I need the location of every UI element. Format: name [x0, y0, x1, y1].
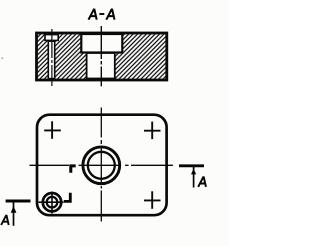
- cross mark top-left: [44, 121, 61, 139]
- section plane bar left: [6, 200, 31, 203]
- faint speck: [2, 58, 4, 59]
- section view hatched block: [37, 33, 167, 80]
- cross mark top-right: [144, 122, 161, 140]
- small counterbore (section): [45, 35, 58, 41]
- plan vertical centerline: [100, 108, 102, 222]
- label A right: [198, 176, 206, 186]
- centerline small hole (section): [51, 29, 53, 86]
- plan view rounded rect: [37, 115, 167, 216]
- small hole (section): [48, 41, 54, 78]
- section path bend mark lower: [64, 193, 71, 202]
- section arrow left: [11, 203, 17, 226]
- big through hole (section): [87, 53, 115, 79]
- big circle hole (plan): [88, 152, 115, 179]
- cross mark bottom-right: [144, 191, 161, 209]
- big circle counterbore (plan): [83, 147, 120, 184]
- centerline big hole (section): [100, 26, 102, 86]
- section plane bar right: [179, 164, 204, 167]
- label A left: [1, 215, 9, 225]
- big counterbore (section): [81, 34, 122, 53]
- section outline: [37, 33, 167, 80]
- plan horizontal centerline: [30, 164, 173, 166]
- title A-A: [89, 9, 115, 20]
- screw hole circle (plan): [47, 197, 58, 208]
- screw hole centerlines (plan): [39, 192, 64, 214]
- screw hole counterbore circle (plan): [43, 193, 61, 211]
- section path bend mark upper: [71, 166, 76, 173]
- section arrow right: [191, 167, 196, 188]
